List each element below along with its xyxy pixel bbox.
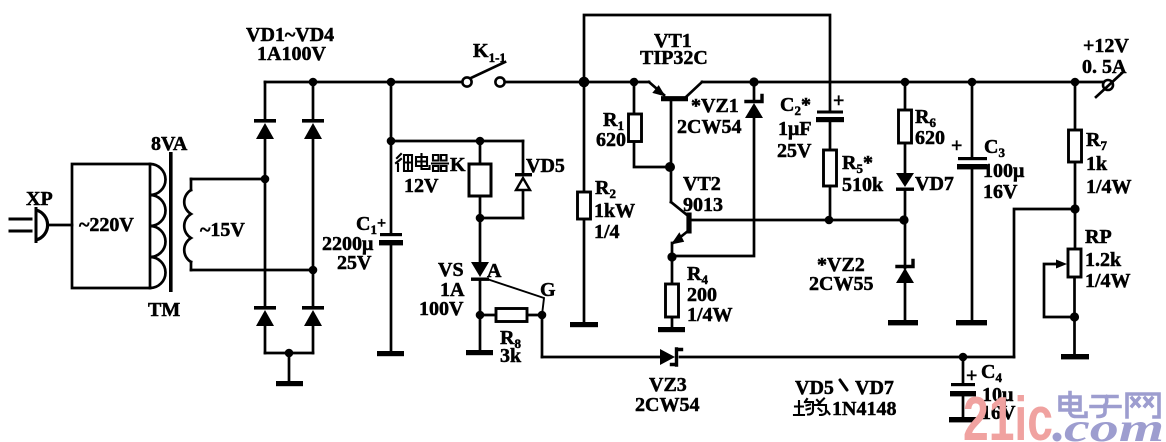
transformer TM core	[169, 152, 173, 292]
svg-text:1/4: 1/4	[594, 221, 620, 243]
svg-text:+12V: +12V	[1083, 35, 1129, 57]
svg-text:VT2: VT2	[683, 173, 721, 195]
svg-text:25V: 25V	[337, 252, 372, 274]
relay K coil 12V	[396, 141, 491, 218]
svg-text:VZ3: VZ3	[649, 374, 687, 396]
svg-text:+: +	[833, 90, 844, 112]
diode VD3 (bridge bottom-left)	[254, 182, 276, 353]
wire: secondary top lead to bridge node	[191, 175, 269, 184]
svg-text:VD7: VD7	[855, 377, 894, 399]
bridge label VD1~VD4 1A100V	[246, 24, 334, 65]
svg-text:1/4W: 1/4W	[1085, 270, 1131, 292]
ground (VZ2)	[888, 320, 918, 325]
svg-text:1μF: 1μF	[778, 118, 812, 140]
diode VD5	[476, 141, 565, 222]
wire: secondary bottom lead to bridge node	[191, 266, 317, 275]
svg-text:*VZ1: *VZ1	[691, 95, 739, 117]
watermark dian zi wang	[1060, 393, 1159, 418]
diode VD4 (bridge bottom-right)	[302, 273, 324, 353]
resistor R5 510k	[824, 150, 885, 220]
wire: relay branch from rail	[387, 137, 523, 146]
ground (R4)	[658, 327, 685, 332]
resistor R2 1k 1/4	[578, 82, 636, 322]
svg-text:25V: 25V	[777, 140, 812, 162]
svg-text:9013: 9013	[683, 194, 723, 216]
svg-text:1N4148: 1N4148	[832, 398, 896, 420]
wire: top loop emitter side to C2	[584, 15, 830, 111]
wire: rail switch to VT1 emitter	[505, 77, 649, 88]
svg-text:2CW54: 2CW54	[677, 116, 741, 138]
output terminal +12V 0.5A	[1082, 35, 1129, 97]
resistor R7 1k 1/4W	[1069, 82, 1132, 214]
zener VZ3 2CW54	[635, 349, 699, 416]
transformer TM secondary winding	[184, 179, 245, 270]
ground (bridge)	[276, 353, 303, 386]
svg-text:K: K	[450, 154, 466, 176]
svg-text:16V: 16V	[983, 181, 1018, 203]
transformer TM labels	[148, 133, 188, 321]
resistor R1 620	[596, 82, 675, 172]
svg-text:100μ: 100μ	[983, 160, 1025, 182]
diode VD1 (bridge top-left)	[254, 82, 276, 176]
svg-text:1/4W: 1/4W	[687, 304, 733, 326]
resistor R4 200 1/4W	[666, 257, 733, 327]
svg-text:2CW54: 2CW54	[635, 394, 699, 416]
svg-text:12V: 12V	[404, 175, 439, 197]
ground (R2)	[570, 322, 598, 327]
transistor VT1 TIP32C	[640, 30, 708, 202]
svg-text:~220V: ~220V	[79, 214, 134, 236]
zener VZ1 2CW54	[676, 82, 763, 256]
svg-text:RP: RP	[1085, 226, 1112, 248]
transistor VT2 9013	[667, 173, 723, 262]
resistor R6 620	[899, 82, 946, 173]
svg-text:1kW: 1kW	[594, 200, 635, 222]
svg-text:~15V: ~15V	[200, 219, 245, 241]
svg-text:VD7: VD7	[915, 173, 954, 195]
svg-text:620: 620	[596, 129, 626, 151]
svg-text:8VA: 8VA	[151, 133, 188, 155]
wire: bottom feedback line	[542, 353, 1014, 362]
svg-text:+: +	[951, 135, 962, 157]
ground (VS cathode)	[466, 350, 493, 355]
potentiometer RP 1.2k 1/4W	[1044, 209, 1131, 354]
svg-text:2CW55: 2CW55	[809, 273, 873, 295]
ground (C3)	[956, 320, 987, 325]
ground (C4)	[949, 417, 977, 422]
wire: 220V primary loop	[72, 164, 150, 288]
wire: feedback node R7/RP to bottom line	[1014, 209, 1075, 357]
svg-text:VD5: VD5	[526, 155, 565, 177]
capacitor C1 2200u 25V	[322, 82, 403, 351]
svg-text:VD5: VD5	[795, 377, 834, 399]
wire: main +V rail	[265, 78, 463, 87]
wire: bridge bottom rail	[265, 349, 313, 358]
svg-text:com: com	[1064, 405, 1164, 442]
capacitor C2 1uF 25V	[777, 90, 844, 162]
svg-text:21ic: 21ic	[963, 385, 1053, 442]
svg-text:A: A	[487, 260, 502, 282]
ground (RP)	[1061, 354, 1089, 359]
switch K1-1	[462, 40, 506, 87]
svg-text:G: G	[540, 279, 556, 301]
svg-text:+: +	[966, 365, 977, 387]
svg-text:1.2k: 1.2k	[1085, 249, 1122, 271]
zener VZ2 2CW55	[809, 220, 914, 320]
svg-text:0. 5A: 0. 5A	[1082, 56, 1127, 78]
svg-text:VS: VS	[438, 259, 464, 281]
svg-text:1/4W: 1/4W	[1086, 176, 1132, 198]
svg-text:3k: 3k	[500, 345, 522, 367]
svg-text:620: 620	[915, 127, 945, 149]
thyristor VS 1A 100V	[419, 218, 502, 350]
watermark .com	[1053, 405, 1165, 442]
svg-text:1k: 1k	[1086, 153, 1108, 175]
svg-text:TM: TM	[148, 299, 180, 321]
svg-text:100V: 100V	[419, 298, 464, 320]
svg-text:200: 200	[687, 284, 717, 306]
diode VD7	[896, 173, 954, 220]
svg-text:TIP32C: TIP32C	[640, 47, 708, 69]
svg-text:1A100V: 1A100V	[257, 43, 326, 65]
capacitor C4 10u 16V	[950, 357, 1016, 424]
wire: VT2 base reference line	[691, 215, 909, 224]
note VD5 VD7 are 1N4148	[794, 377, 896, 420]
ground (C1)	[377, 351, 404, 356]
diode VD2 (bridge top-right)	[302, 82, 324, 267]
transformer TM primary winding	[79, 164, 165, 288]
resistor R8 3k	[480, 309, 546, 368]
svg-text:510k: 510k	[842, 174, 884, 196]
svg-text:XP: XP	[26, 188, 53, 210]
wire: gate G lead	[487, 279, 556, 315]
capacitor C3 100u 16V	[951, 82, 1025, 320]
plug XP	[10, 188, 72, 242]
wire: rail VT1 collector to output	[702, 77, 1103, 86]
wire: G node down to feedback line	[541, 315, 544, 357]
